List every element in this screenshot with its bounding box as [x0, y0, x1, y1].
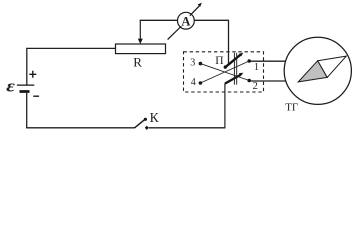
- wire node 1 to galvanometer: [250, 60, 286, 62]
- commutator insulating handle bar (double line): [233, 53, 235, 85]
- wire top rail: ammeter to right corner and down: [194, 20, 228, 64]
- node 2 dot: [247, 79, 251, 83]
- svg-text:П: П: [215, 55, 223, 67]
- switch K blade: [135, 119, 146, 128]
- wire top-left horizontal from battery branch to rheostat: [27, 47, 116, 49]
- crossed wire 3 to 2: [200, 64, 249, 81]
- wire bottom rail right of switch: [149, 127, 226, 129]
- wire top rail: wiper to ammeter: [140, 19, 178, 21]
- svg-text:1: 1: [254, 62, 259, 73]
- compass needle shaded half: [298, 61, 327, 82]
- rheostat wiper arrow: [139, 20, 141, 39]
- svg-text:ε: ε: [6, 78, 15, 96]
- ammeter adjustment arrow: [168, 6, 200, 40]
- crossed wire 4 to 1: [200, 61, 249, 83]
- svg-text:2: 2: [253, 81, 258, 92]
- compass needle white half: [318, 56, 347, 77]
- wire bottom rail left of switch: [26, 127, 134, 129]
- switch K blade tip dot: [144, 118, 147, 121]
- svg-text:3: 3: [190, 58, 195, 69]
- ammeter U: circle: [178, 12, 195, 29]
- node 1 dot: [247, 59, 251, 63]
- label +: [29, 71, 36, 78]
- battery cell short thick plate (-): [20, 90, 30, 93]
- node 3 dot: [199, 62, 203, 66]
- node 4 dot: [199, 81, 203, 85]
- svg-text:R: R: [133, 54, 142, 69]
- wire left vertical down to battery + plate: [26, 48, 28, 85]
- svg-text:4: 4: [191, 77, 196, 88]
- commutator dashed box: [184, 52, 264, 92]
- rheostat R body: [116, 44, 166, 54]
- switch K right contact diamond: [145, 126, 149, 130]
- wire node 2 to galvanometer: [250, 80, 286, 82]
- wire from battery down to bottom rail: [26, 93, 28, 128]
- upper blade pivot dot: [224, 65, 227, 68]
- tangent galvanometer TG circle: [284, 37, 351, 104]
- svg-text:ТГ: ТГ: [285, 101, 298, 113]
- svg-text:К: К: [150, 110, 160, 125]
- commutator upper blade: [225, 55, 240, 67]
- commutator lower blade: [225, 75, 240, 84]
- battery cell long plate (+): [17, 84, 34, 86]
- svg-text:A: A: [181, 14, 190, 28]
- label minus: [33, 95, 39, 97]
- wire right vertical from bottom rail up to commutator lower blade: [224, 84, 226, 129]
